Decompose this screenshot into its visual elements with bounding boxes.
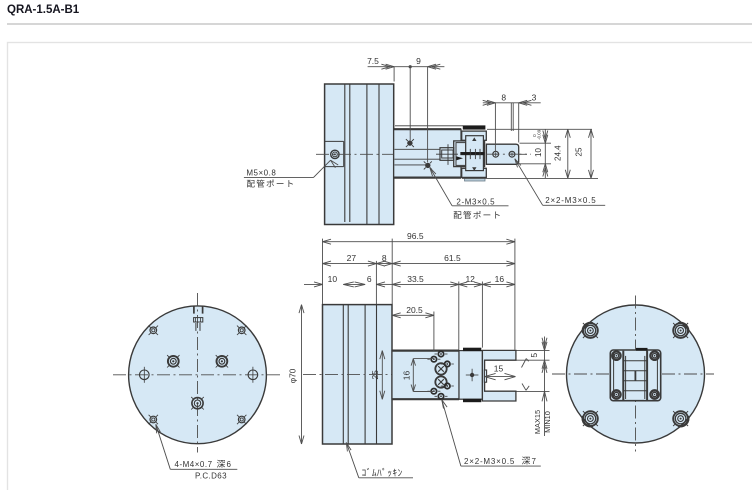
dim 10 tol — [532, 129, 548, 178]
dowel hole right — [248, 367, 258, 383]
svg-text:96.5: 96.5 — [407, 231, 424, 241]
svg-text:16: 16 — [495, 274, 505, 284]
svg-text:-0.09: -0.09 — [537, 129, 542, 140]
unit channel — [623, 348, 647, 400]
piping port P1 — [406, 139, 414, 147]
svg-text:25: 25 — [575, 147, 584, 156]
svg-text:27: 27 — [347, 253, 357, 263]
side view body layer lines — [345, 84, 379, 225]
bottom center screw — [191, 397, 204, 410]
label 2-M3 port — [430, 168, 509, 219]
surface mark top — [522, 359, 529, 368]
ext verticals dim rows — [323, 239, 515, 351]
dim 24.4 — [554, 129, 571, 178]
svg-text:4-M4×0.7: 4-M4×0.7 — [175, 460, 213, 469]
svg-text:8: 8 — [382, 253, 387, 263]
svg-text:12: 12 — [465, 274, 475, 284]
front centerline — [303, 373, 481, 375]
M3 screw s5 — [441, 383, 454, 388]
gear mesh band — [461, 152, 484, 155]
svg-text:33.5: 33.5 — [407, 274, 424, 284]
left centerlines — [113, 293, 281, 453]
svg-text:MIN10: MIN10 — [543, 411, 552, 433]
gear teeth — [470, 149, 480, 159]
label rubber packing — [346, 443, 413, 478]
svg-text:φ70: φ70 — [287, 368, 297, 383]
right centerlines — [552, 296, 714, 452]
svg-text:2-M3×0.5: 2-M3×0.5 — [456, 198, 495, 207]
M3 screw s4 — [427, 389, 440, 394]
svg-text:10: 10 — [534, 148, 543, 157]
dim 8 top — [483, 92, 541, 151]
dim 20.5 — [392, 305, 434, 318]
M4 hole b — [237, 326, 246, 335]
dim 15 gap — [485, 364, 516, 380]
svg-text:MAX15: MAX15 — [533, 410, 542, 434]
M3 screw s6 — [435, 394, 448, 399]
ext lines right dims — [462, 129, 598, 178]
end block screw — [466, 369, 479, 382]
bottom bearing cap — [465, 178, 486, 181]
gripper fork — [482, 350, 516, 401]
bearing frame — [454, 141, 485, 167]
dim 3 top — [519, 92, 537, 142]
shaft end in gap — [484, 370, 486, 382]
housing block — [394, 126, 463, 178]
pinion block — [466, 136, 484, 171]
dim 9 — [409, 56, 441, 162]
dim 25 front — [370, 351, 385, 400]
svg-text:24.4: 24.4 — [554, 145, 563, 161]
front big port B — [435, 376, 446, 387]
cylinder bore lines — [395, 149, 440, 165]
svg-text:P.C.D63: P.C.D63 — [195, 471, 227, 480]
top bearing cap — [463, 126, 485, 129]
bottom strip plate — [462, 168, 487, 177]
svg-text:5: 5 — [529, 353, 539, 358]
bearing subframe — [456, 143, 466, 166]
dim 25 right — [575, 129, 594, 178]
M3 screw s2 — [435, 351, 448, 356]
tab hole H1 — [493, 151, 499, 157]
dim MAX15 MIN10 — [517, 391, 553, 434]
piston rod — [436, 144, 463, 165]
side view centerline — [316, 153, 531, 155]
unit screw c — [612, 390, 620, 398]
svg-text:2×2-M3×0.5: 2×2-M3×0.5 — [464, 457, 515, 466]
dowel hole left — [140, 367, 150, 383]
front end block — [459, 348, 482, 402]
surface mark bottom — [522, 384, 529, 391]
side view body block — [325, 84, 394, 225]
svg-text:16: 16 — [402, 371, 412, 381]
front housing — [392, 351, 459, 400]
dim row3 — [304, 274, 515, 287]
svg-text:6: 6 — [367, 274, 372, 284]
page title QRA-1.5A-B1 — [7, 4, 80, 16]
unit screw a — [612, 352, 620, 360]
svg-text:6: 6 — [227, 460, 232, 469]
svg-text:25: 25 — [370, 370, 380, 380]
svg-text:M5×0.8: M5×0.8 — [246, 169, 276, 178]
svg-text:61.5: 61.5 — [444, 253, 461, 263]
M3 screw s1 — [427, 357, 440, 362]
unit screw b — [650, 352, 658, 360]
M3 screw s3 — [441, 361, 454, 366]
svg-text:7: 7 — [532, 457, 537, 466]
label 4-M4 — [156, 424, 238, 480]
port screw right — [216, 355, 228, 367]
front disc layer lines — [343, 305, 376, 444]
left disc face — [129, 306, 267, 444]
svg-text:7.5: 7.5 — [367, 56, 379, 66]
label M5 port — [244, 160, 338, 187]
right disc face — [567, 305, 705, 443]
mount screw b — [673, 322, 689, 338]
mount screw d — [673, 411, 689, 427]
svg-text:2×2-M3×0.5: 2×2-M3×0.5 — [545, 196, 596, 205]
svg-text:20.5: 20.5 — [406, 305, 423, 315]
dim 16 inner — [402, 359, 435, 392]
svg-text:10: 10 — [328, 274, 338, 284]
dim 96.5 — [323, 231, 515, 244]
piping port P2 — [424, 161, 432, 169]
dim phi70 — [287, 305, 304, 444]
front disc — [323, 305, 393, 444]
mount screw c — [582, 411, 598, 427]
gripper unit body — [610, 350, 660, 401]
label 2x2-M3 top — [515, 159, 605, 206]
title separator rule — [7, 23, 752, 25]
M5 port boss — [325, 141, 344, 166]
dim 5 jaw — [517, 337, 550, 437]
tab hole H2 — [509, 151, 515, 157]
tab centerline — [486, 153, 531, 155]
unit screw d — [650, 390, 658, 398]
M5 port circle — [331, 150, 339, 158]
M4 hole d — [237, 415, 246, 424]
svg-text:15: 15 — [494, 364, 504, 374]
label 2x2-M3 depth7 — [442, 400, 541, 466]
front big port A — [435, 363, 446, 374]
svg-text:QRA-1.5A-B1: QRA-1.5A-B1 — [7, 4, 80, 16]
gear pitch arrows — [472, 137, 476, 171]
output tab — [486, 144, 518, 164]
svg-text:3: 3 — [532, 92, 537, 102]
port screw left — [167, 355, 179, 367]
dim 27-8-61.5 — [323, 253, 515, 266]
M4 hole c — [149, 415, 158, 424]
M4 hole a — [149, 326, 158, 335]
svg-text:9: 9 — [416, 56, 421, 66]
svg-text:8: 8 — [501, 92, 506, 102]
mount screw a — [582, 322, 598, 338]
top strip plate — [462, 131, 487, 140]
top port fitting — [194, 306, 203, 331]
dim 7.5 — [367, 56, 444, 81]
